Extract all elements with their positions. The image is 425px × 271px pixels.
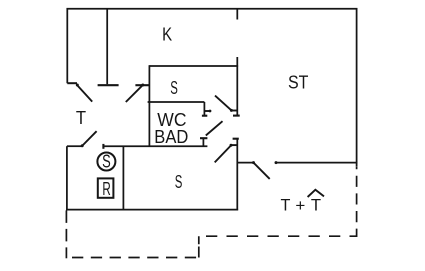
terrace door leaf (253, 163, 269, 179)
S(bottom) leaf tick to wall (231, 144, 237, 146)
dashed right vertical (356, 167, 358, 237)
K/ST divider mid segment (236, 57, 238, 116)
ST bottom wall left part (237, 162, 253, 164)
wall WC bottom / S room top (103, 145, 207, 147)
svg-text:T: T (281, 195, 291, 214)
hinge dot K door (141, 84, 144, 87)
svg-text:S: S (175, 171, 183, 192)
hinge dot vestibule leaf (81, 144, 84, 147)
svg-text:T: T (311, 196, 321, 215)
boxed R symbol (98, 178, 114, 199)
vestibule left outer wall (66, 146, 68, 210)
left end cap of that wall (102, 144, 104, 149)
WC door leaf (206, 121, 223, 135)
svg-text:K: K (162, 24, 173, 45)
wall S(top)/WC left side (148, 65, 150, 146)
hinge dot entry door (76, 84, 79, 87)
WC top wall (148, 101, 205, 103)
svg-text:S: S (170, 77, 178, 98)
dashed upper horizontal to right (199, 235, 357, 237)
vestibule top stub (67, 145, 82, 147)
roof hat over second T (308, 190, 324, 197)
WC right wall stub (203, 102, 205, 116)
door frame stub between WC and S doors (202, 138, 204, 146)
svg-text:S: S (102, 152, 111, 172)
ST bottom wall right part (275, 162, 357, 164)
cap at mid segment end (233, 115, 240, 117)
hinge dot terrace leaf (252, 161, 255, 164)
top outer wall (67, 8, 358, 10)
wall between closet/T and K (106, 8, 108, 84)
door frame crossbar at wall end (98, 84, 119, 86)
vestibule right wall (122, 146, 124, 209)
S(top) leaf tick to wall (232, 110, 238, 112)
hinge dot S(top) leaf (230, 109, 233, 112)
WC hinge tick (204, 110, 210, 112)
bottom outer wall (66, 209, 238, 211)
svg-text:T: T (76, 107, 86, 128)
dot at wall restart (275, 161, 278, 164)
hinge dot S(bottom) leaf (230, 144, 233, 147)
K door leaf (126, 85, 143, 102)
dashed terrace outline left vertical (65, 210, 67, 258)
left outer wall upper (66, 8, 68, 83)
cap at lower segment start (233, 138, 239, 140)
hinge dot WC tick (209, 110, 212, 113)
dashed step vertical (198, 236, 200, 257)
wall right of S room lower segment (236, 139, 238, 211)
vestibule door leaf (82, 131, 97, 146)
door frame cap on hall wall (135, 84, 149, 86)
right outer wall (356, 8, 358, 167)
S(top) door leaf (215, 96, 232, 111)
svg-text:R: R (102, 179, 110, 199)
S(bottom) door leaf (215, 146, 231, 163)
dashed terrace outline bottom horizontal (66, 257, 199, 259)
svg-text:+: + (295, 196, 305, 215)
K/ST divider tick at top (236, 9, 238, 20)
stub top cap (200, 137, 207, 139)
cap at WC wall end (202, 115, 207, 117)
svg-text:BAD: BAD (154, 126, 188, 147)
stove symbol circled S (97, 152, 115, 172)
S(top) room top wall (149, 65, 238, 67)
svg-text:ST: ST (288, 71, 308, 92)
entry door leaf (77, 85, 92, 102)
left wall end stub (67, 82, 77, 84)
